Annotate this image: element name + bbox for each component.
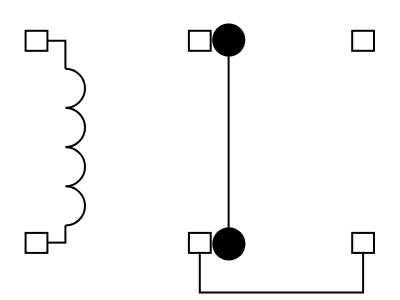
terminal square bottom-left — [26, 233, 48, 253]
terminal square top-middle — [189, 31, 211, 51]
terminal square bottom-right — [352, 233, 374, 253]
wire — [47, 226, 65, 243]
terminal square top-right — [352, 31, 374, 51]
junction dot top — [212, 23, 245, 56]
terminal square bottom-middle — [189, 233, 211, 253]
inductor — [65, 69, 85, 226]
wire — [200, 254, 363, 293]
junction dot bottom — [212, 227, 245, 260]
wire — [228, 40, 230, 244]
wire — [47, 41, 65, 69]
terminal square top-left — [26, 31, 48, 51]
